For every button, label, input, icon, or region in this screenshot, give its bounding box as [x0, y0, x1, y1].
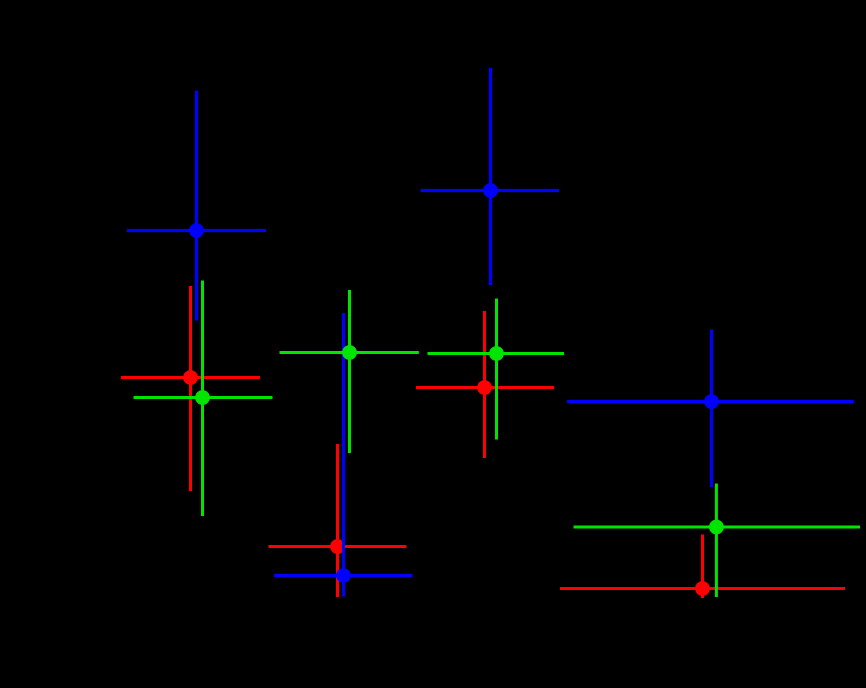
blue data point B marker	[483, 183, 498, 198]
green data point D error bars	[280, 290, 419, 453]
blue data point F error bars	[567, 330, 854, 488]
red data point H error bars	[560, 535, 845, 599]
green data point E error bars	[428, 299, 565, 440]
blue data point A marker	[189, 223, 204, 238]
green data point C marker	[195, 390, 210, 405]
blue data point F marker	[704, 394, 719, 409]
green data point G error bars	[574, 484, 861, 598]
red data point C marker	[183, 370, 198, 385]
blue data point B error bars	[421, 68, 560, 285]
red data point H marker	[695, 581, 710, 596]
red data point E error bars	[416, 311, 554, 458]
red data point C error bars	[121, 286, 260, 491]
red data point I error bars	[269, 444, 407, 597]
green data point G marker	[709, 520, 724, 535]
blue data point I error bars	[274, 313, 413, 597]
blue data point A error bars	[127, 91, 266, 321]
red data point I marker	[330, 539, 345, 554]
green data point E marker	[489, 346, 504, 361]
green data point C error bars	[134, 281, 273, 517]
blue data point I marker	[336, 568, 351, 583]
red data point E marker	[477, 380, 492, 395]
green data point D marker	[342, 345, 357, 360]
